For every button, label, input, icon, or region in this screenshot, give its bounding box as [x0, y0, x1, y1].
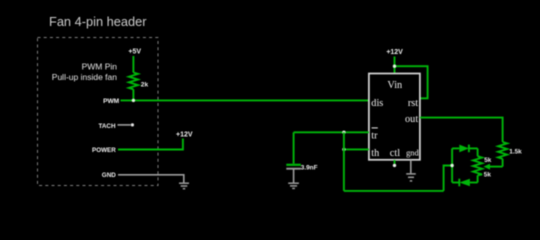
text annotation "Fan 4-pin header" [49, 14, 147, 29]
pin label dis [371, 98, 383, 109]
wire tr pin [344, 131, 369, 133]
svg-text:+12V: +12V [386, 49, 403, 56]
wire TACH stub [118, 124, 131, 126]
svg-text:tr: tr [371, 131, 378, 142]
pin label out [405, 114, 418, 125]
wire GND [118, 175, 184, 183]
junction tr node [342, 131, 345, 134]
text annotation "PWM Pin / Pull-up inside fan" [52, 62, 117, 82]
resistor R2 1.5k [498, 142, 522, 159]
potentiometer wiper arrow [484, 164, 503, 170]
svg-text:Fan 4-pin header: Fan 4-pin header [49, 14, 147, 29]
junction th node [342, 148, 345, 151]
wire R2 to wiper [502, 159, 504, 167]
svg-text:Vin: Vin [387, 80, 402, 91]
svg-text:5k: 5k [484, 172, 492, 179]
wire riser to diode junction [444, 166, 453, 191]
post ctl (unconnected) [393, 164, 396, 167]
ground symbol (C1) [288, 183, 299, 188]
wire +12V to Vin pin [394, 57, 396, 74]
svg-text:TACH: TACH [98, 123, 115, 130]
wire PWM net to dis pin [121, 99, 369, 101]
svg-text:5k: 5k [484, 157, 492, 164]
post TACH (unconnected) [131, 123, 134, 126]
wire left rail of diode network [451, 148, 453, 182]
wire bottom run [344, 190, 444, 192]
pin label PWM [103, 98, 120, 105]
wire out pin to R2 [420, 118, 503, 142]
svg-text:Pull-up inside fan: Pull-up inside fan [52, 72, 117, 82]
wire gnd stub [410, 160, 412, 174]
wire th pin [344, 148, 369, 150]
svg-text:dis: dis [371, 98, 383, 109]
+12V supply label (555 Vin) [386, 49, 403, 56]
svg-text:PWM: PWM [103, 98, 120, 105]
diode D1 (charge) [459, 145, 477, 153]
diode D2 (discharge) [459, 179, 477, 187]
svg-text:out: out [405, 114, 418, 125]
svg-text:rst: rst [408, 98, 418, 109]
svg-text:GND: GND [102, 172, 116, 179]
pin label GND [102, 172, 116, 179]
svg-text:POWER: POWER [92, 147, 116, 154]
pin label ctl [390, 148, 400, 159]
wire top rail [452, 147, 459, 149]
junction diode network / tr-th [450, 164, 453, 167]
ground symbol (555 gnd) [406, 174, 416, 181]
pin label gnd [406, 148, 419, 157]
capacitor C1 3.9nF [286, 132, 317, 183]
svg-text:th: th [371, 148, 380, 159]
wire tr/th rail down [343, 132, 345, 191]
wire R1 to PWM node [132, 89, 134, 100]
wire C1 to tr node [294, 131, 344, 133]
svg-text:3.9nF: 3.9nF [301, 164, 318, 171]
svg-text:+12V: +12V [176, 132, 193, 139]
+12V supply label (fan power) [176, 132, 193, 139]
junction Vin/rst [393, 65, 396, 68]
svg-text:+5V: +5V [128, 49, 141, 56]
wire +5V to R1 [132, 56, 134, 73]
ground symbol (fan GND) [179, 183, 189, 189]
svg-text:2k: 2k [141, 82, 149, 89]
wire ctl stub [394, 160, 396, 164]
pin label TACH [98, 123, 115, 130]
svg-text:gnd: gnd [406, 148, 419, 157]
svg-text:1.5k: 1.5k [509, 149, 522, 156]
pin label th [371, 148, 380, 159]
wire bottom rail [452, 182, 459, 184]
pin label tr (with overline) [371, 128, 378, 142]
wire rst branch [395, 66, 428, 98]
fan header dashed box [38, 38, 159, 186]
junction PWM/R1 [132, 99, 135, 102]
svg-text:ctl: ctl [390, 148, 400, 159]
op-amp U1 555 timer box [369, 74, 420, 160]
pin label rst [408, 98, 418, 109]
svg-text:PWM Pin: PWM Pin [82, 62, 118, 72]
+5V supply label [128, 49, 141, 56]
resistor R1 2k [129, 73, 149, 90]
wire POWER to +12V [118, 139, 183, 150]
potentiometer body 5k/5k [473, 148, 492, 182]
pin label POWER [92, 147, 116, 154]
pin label Vin [387, 80, 402, 91]
